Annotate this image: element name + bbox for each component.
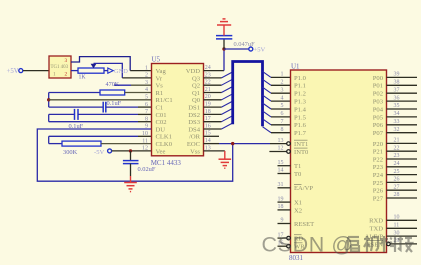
svg-text:CLK1: CLK1 <box>156 134 172 141</box>
svg-text:3: 3 <box>145 80 148 86</box>
bus entry right 7 <box>263 119 272 125</box>
svg-text:T1: T1 <box>294 163 301 170</box>
bus entry right 1 <box>263 71 272 77</box>
wire vertical joining pins 10,11 <box>48 136 50 143</box>
svg-text:GND: GND <box>114 68 128 75</box>
svg-text:Vee: Vee <box>156 148 166 155</box>
U1 pin 7 stub <box>271 124 291 126</box>
svg-text:34: 34 <box>394 111 400 117</box>
wire TG1403 pin3 to U5 Vag (pin1) <box>71 57 130 71</box>
chip U5 MC14433 body <box>152 64 204 156</box>
svg-text:9: 9 <box>145 124 148 130</box>
svg-text:18: 18 <box>278 204 284 210</box>
capacitor C2 0.1uF plates <box>74 109 76 120</box>
svg-text:RXD: RXD <box>369 218 383 225</box>
U1 pin 9 RESET <box>278 223 291 225</box>
svg-text:2: 2 <box>145 73 148 79</box>
svg-text:0.047uF: 0.047uF <box>234 41 256 48</box>
svg-text:2: 2 <box>281 80 284 86</box>
svg-text:RESET: RESET <box>294 221 314 228</box>
U1 pin 25 P24 <box>387 174 418 176</box>
svg-text:DS1: DS1 <box>188 105 200 112</box>
svg-text:Vr: Vr <box>156 75 163 82</box>
svg-text:Vs: Vs <box>156 83 164 90</box>
svg-text:P05: P05 <box>373 114 384 121</box>
svg-text:P23: P23 <box>373 164 384 171</box>
svg-text:CSDN @: CSDN @ <box>262 233 354 257</box>
svg-text:P02: P02 <box>373 91 383 98</box>
U1 pin 26 P25 <box>387 181 418 183</box>
svg-text:T0: T0 <box>294 171 302 178</box>
svg-text:9: 9 <box>281 218 284 224</box>
svg-text:1: 1 <box>53 72 56 78</box>
svg-text:24: 24 <box>394 161 400 167</box>
U1 pin 19 X1 <box>278 201 291 203</box>
svg-text:Q0: Q0 <box>192 97 201 104</box>
capacitor C1 0.1uF plates <box>102 102 104 113</box>
wire EOC to INT1 <box>219 143 270 145</box>
pin 22 stub <box>204 84 222 86</box>
U1 pin 24 P23 <box>387 166 418 168</box>
svg-text:P1.1: P1.1 <box>294 83 306 90</box>
U1 pin 32 P07 <box>387 132 418 134</box>
svg-text:P21: P21 <box>373 149 383 156</box>
svg-text:1: 1 <box>281 72 284 78</box>
svg-text:P27: P27 <box>373 195 384 202</box>
wire U5 pin1 row <box>130 70 151 72</box>
svg-text:13: 13 <box>278 138 284 144</box>
ground symbol below 0.02uF <box>124 182 137 184</box>
svg-text:15: 15 <box>278 160 284 166</box>
svg-text:MC1 4433: MC1 4433 <box>151 159 182 167</box>
svg-text:+5V: +5V <box>7 68 19 75</box>
svg-text:/OR: /OR <box>189 134 201 141</box>
U1 pin 30 ALE/P <box>387 235 418 237</box>
svg-text:4: 4 <box>145 87 148 93</box>
svg-text:INT0: INT0 <box>294 149 309 156</box>
svg-text:CLK0: CLK0 <box>156 141 173 148</box>
svg-text:11: 11 <box>394 223 400 229</box>
U1 pin 4 stub <box>271 100 291 102</box>
U1 pin 34 P05 <box>387 116 418 118</box>
svg-text:8: 8 <box>145 116 148 122</box>
U1 pin 13 INT1 <box>287 142 291 146</box>
watermark char chu <box>364 236 378 252</box>
svg-text:VDD: VDD <box>186 68 201 75</box>
svg-text:P22: P22 <box>373 156 383 163</box>
svg-text:22: 22 <box>394 145 400 151</box>
svg-text:Vss: Vss <box>190 148 200 155</box>
pin 16 stub <box>204 128 222 130</box>
svg-text:P25: P25 <box>373 180 384 187</box>
svg-text:28: 28 <box>394 192 400 198</box>
U1 pin 27 P26 <box>387 189 418 191</box>
wire vertical joining pins 7,8 <box>48 114 50 121</box>
svg-text:6: 6 <box>281 111 284 117</box>
U1 pin 35 P04 <box>387 108 418 110</box>
wire CLK1 pin10 <box>49 135 138 137</box>
U1 pin 1 stub <box>271 76 291 78</box>
svg-text:U1: U1 <box>291 62 300 70</box>
svg-text:TXD: TXD <box>369 226 383 233</box>
U1 pin 22 P21 <box>387 150 418 152</box>
U1 pin 3 stub <box>271 92 291 94</box>
svg-text:35: 35 <box>394 103 400 109</box>
svg-text:P03: P03 <box>373 99 384 106</box>
pin 17 stub <box>204 121 222 123</box>
resistor R 470K body <box>100 90 125 95</box>
svg-text:36: 36 <box>394 95 400 101</box>
svg-text:31: 31 <box>278 182 284 188</box>
svg-text:10: 10 <box>142 131 148 137</box>
svg-text:23: 23 <box>394 153 400 159</box>
svg-text:P1.5: P1.5 <box>294 114 307 121</box>
watermark CSDN <box>262 233 354 257</box>
svg-text:DU: DU <box>156 126 166 133</box>
svg-text:7: 7 <box>145 109 148 115</box>
wire C2 to U5 pin7 <box>78 113 138 115</box>
svg-text:C1: C1 <box>156 105 164 112</box>
wire 470K to U5 pin4 <box>125 92 152 94</box>
wire VDD up to decoupling node <box>223 49 225 71</box>
svg-text:12: 12 <box>278 146 284 152</box>
power port GND arrow <box>108 68 113 73</box>
U1 pin 17 RD <box>278 237 287 239</box>
svg-text:P00: P00 <box>373 75 384 82</box>
svg-text:8: 8 <box>281 127 284 133</box>
wire capacitor to top ground <box>223 25 225 36</box>
svg-text:P01: P01 <box>373 83 383 90</box>
svg-text:39: 39 <box>394 72 400 78</box>
svg-text:30: 30 <box>394 230 400 236</box>
svg-text:EOC: EOC <box>187 141 201 148</box>
bus entry right 5 <box>263 103 272 109</box>
bus entry right 2 <box>263 79 272 85</box>
stub into INT1 bubble <box>270 143 287 145</box>
bus entry left 21 <box>222 87 233 93</box>
U1 pin 5 stub <box>271 108 291 110</box>
pin 18 stub <box>204 113 222 115</box>
U1 pin 36 P03 <box>387 100 418 102</box>
wire pot wiper to U5 Vr (pin2) <box>94 63 123 78</box>
svg-text:P06: P06 <box>373 122 384 129</box>
svg-text:P26: P26 <box>373 188 384 195</box>
svg-text:P1.0: P1.0 <box>294 75 307 82</box>
wire -5V to U5 pin12 <box>112 150 152 152</box>
U1 pin 39 P00 <box>387 76 418 78</box>
wire U5 pin2 row <box>122 77 151 79</box>
svg-text:37: 37 <box>394 87 400 93</box>
svg-text:1K: 1K <box>79 75 87 81</box>
svg-text:38: 38 <box>394 80 400 86</box>
pin 13 stub Vss <box>204 150 225 152</box>
junction dot pin5 node <box>47 98 50 101</box>
svg-text:0.1uF: 0.1uF <box>107 100 122 107</box>
svg-text:Q2: Q2 <box>192 83 200 90</box>
U1 pin 11 TXD <box>387 227 418 229</box>
svg-text:14: 14 <box>278 168 284 174</box>
wire to capacitor C2 0.1uF <box>49 113 75 115</box>
svg-text:12: 12 <box>142 146 148 152</box>
U1 pin 33 P06 <box>387 124 418 126</box>
svg-text:7: 7 <box>281 119 284 125</box>
bus entry left 18 <box>222 108 233 114</box>
junction dot EOC node <box>231 142 234 145</box>
bus entry left 16 <box>222 123 233 129</box>
U1 pin 28 P27 <box>387 197 418 199</box>
svg-text:P24: P24 <box>373 172 384 179</box>
bus entry right 3 <box>263 87 272 93</box>
svg-text:P20: P20 <box>373 141 384 148</box>
bus entry right 4 <box>263 95 272 101</box>
svg-text:300K: 300K <box>63 149 78 156</box>
ground symbol top (inverted) <box>217 24 231 26</box>
U1 pin 21 P20 <box>387 142 418 144</box>
svg-text:X1: X1 <box>294 200 302 207</box>
wire Vss down to ground <box>224 151 226 159</box>
pin 14 stub EOC <box>204 143 220 145</box>
svg-text:4: 4 <box>281 95 284 101</box>
svg-text:DS2: DS2 <box>188 112 200 119</box>
data bus between U5 and U1 <box>233 62 263 127</box>
U1 pin 23 P22 <box>387 158 418 160</box>
svg-text:U5: U5 <box>152 55 161 63</box>
U1 pin 29 PSEN <box>390 243 417 245</box>
svg-text:TG1 403: TG1 403 <box>51 65 69 70</box>
svg-text:INT1: INT1 <box>294 141 308 148</box>
pin 20 stub <box>204 99 222 101</box>
U1 pin 2 stub <box>271 84 291 86</box>
U1 pin 37 P02 <box>387 92 418 94</box>
bus entry left 23 <box>222 72 233 78</box>
svg-text:21: 21 <box>394 138 400 144</box>
svg-text:25: 25 <box>394 169 400 175</box>
power port +5V top <box>249 47 253 51</box>
U1 pin 6 stub <box>271 116 291 118</box>
wire DU (pin9) loop to EOC <box>37 129 232 181</box>
watermark char qi <box>347 237 360 252</box>
resistor R 300K body <box>62 141 101 146</box>
svg-text:DS3: DS3 <box>188 119 200 126</box>
U1 pin 8 stub <box>271 132 291 134</box>
svg-text:P1.2: P1.2 <box>294 91 306 98</box>
wire U5 pin3 Vx input <box>114 84 131 86</box>
svg-text:26: 26 <box>394 177 400 183</box>
svg-text:6: 6 <box>145 102 148 108</box>
bus entry right 6 <box>263 111 272 117</box>
bus entry right 8 <box>263 127 272 133</box>
svg-text:5: 5 <box>281 103 284 109</box>
svg-text:+5V: +5V <box>254 47 266 54</box>
svg-text:19: 19 <box>278 196 284 202</box>
wire to resistor R 470K <box>49 92 100 94</box>
U1 pin 15 T1 <box>278 165 291 167</box>
svg-text:11: 11 <box>142 138 148 144</box>
wire pot right lead <box>104 70 108 72</box>
voltage reference TG1403 <box>49 56 71 78</box>
svg-text:P1.7: P1.7 <box>294 130 307 137</box>
wire TG1403 pin2 to potentiometer <box>71 70 78 72</box>
bus entry left 17 <box>222 116 233 122</box>
wire C 0.02uF to ground <box>130 164 132 176</box>
svg-text:P1.6: P1.6 <box>294 122 307 129</box>
wire to capacitor C1 0.1uF <box>49 106 103 108</box>
wire to resistor R 300K <box>49 143 62 145</box>
pin 24 stub VDD <box>204 70 225 72</box>
svg-text:C02: C02 <box>156 119 167 126</box>
wire Vee node down to C 0.02uF <box>130 151 132 161</box>
junction dot decoupling node <box>222 47 225 50</box>
wire +5V to U2 pin 1 <box>23 70 49 72</box>
U1 pin 10 RXD <box>387 219 418 221</box>
svg-text:1: 1 <box>145 65 148 71</box>
potentiometer RP1 1K body <box>78 68 104 73</box>
svg-text:32: 32 <box>394 127 400 133</box>
wire C1 to U5 pin6 <box>106 106 138 108</box>
svg-text:3: 3 <box>65 58 68 64</box>
wire U5 pin8 row <box>49 121 138 123</box>
svg-text:470K: 470K <box>106 81 120 88</box>
svg-text:C01: C01 <box>156 112 167 119</box>
svg-text:5: 5 <box>145 95 148 101</box>
svg-text:3: 3 <box>281 87 284 93</box>
svg-text:X2: X2 <box>294 207 302 214</box>
svg-text:R1: R1 <box>156 90 164 97</box>
ground symbol at U5 Vss <box>219 158 232 160</box>
svg-text:P07: P07 <box>373 130 384 137</box>
svg-text:27: 27 <box>394 184 400 190</box>
U1 pin 14 T0 <box>278 173 291 175</box>
svg-text:P1.4: P1.4 <box>294 106 307 113</box>
U1 pin 18 X2 <box>278 209 291 211</box>
svg-text:R1/C1: R1/C1 <box>156 97 173 104</box>
wire 300K to U5 pin11 <box>101 143 152 145</box>
svg-text:Vag: Vag <box>156 68 167 75</box>
watermark char ji <box>398 236 412 252</box>
pin 23 stub <box>204 77 222 79</box>
pin 19 stub <box>204 106 222 108</box>
wire node up to capacitor 0.047uF <box>223 39 225 49</box>
wire node to +5V port <box>224 48 249 50</box>
bus entry left 20 <box>222 94 233 100</box>
chip U1 8031 body <box>291 70 387 253</box>
wire vertical joining pins 4,5,6 <box>48 93 50 108</box>
watermark char ke <box>380 236 395 252</box>
bus entry left 22 <box>222 79 233 85</box>
bus entry left 19 <box>222 101 233 107</box>
svg-text:P04: P04 <box>373 106 384 113</box>
capacitor C 0.02uF plates <box>123 160 139 162</box>
svg-text:EA/VP: EA/VP <box>294 185 313 192</box>
svg-text:P1.3: P1.3 <box>294 99 307 106</box>
capacitor C 0.047uF plates <box>216 38 232 40</box>
svg-text:10: 10 <box>394 215 400 221</box>
U1 pin 16 WR <box>278 245 287 247</box>
svg-text:33: 33 <box>394 119 400 125</box>
junction dot Vee node <box>129 149 132 152</box>
svg-text:-5V: -5V <box>94 149 104 156</box>
U1 pin 12 INT0 <box>269 151 286 153</box>
U1 pin 31 EA/VP <box>278 187 291 189</box>
pin 21 stub <box>204 92 222 94</box>
wire U5 pin5 row <box>49 99 152 101</box>
svg-text:2: 2 <box>65 72 68 78</box>
U1 pin 38 P01 <box>387 84 418 86</box>
svg-text:Q3: Q3 <box>192 75 201 82</box>
potentiometer wiper arrow <box>91 64 97 69</box>
pin 15 stub /OR <box>204 135 220 137</box>
svg-text:Q1: Q1 <box>192 90 200 97</box>
svg-text:DS4: DS4 <box>188 126 200 133</box>
